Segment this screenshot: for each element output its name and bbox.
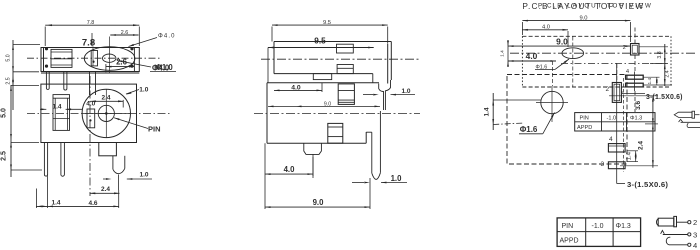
svg-text:3.6: 3.6 [635, 101, 642, 110]
svg-text:9.0: 9.0 [313, 198, 325, 207]
svg-text:APPD: APPD [560, 238, 579, 245]
svg-text:4.0: 4.0 [284, 165, 296, 174]
svg-text:2.5: 2.5 [6, 77, 12, 84]
svg-text:9.5: 9.5 [323, 20, 331, 26]
svg-text:4.0: 4.0 [291, 85, 301, 92]
svg-text:2.4: 2.4 [101, 186, 110, 193]
svg-text:2.6: 2.6 [116, 57, 128, 66]
svg-text:PIN: PIN [580, 116, 589, 122]
svg-text:3-(1.5X0.6): 3-(1.5X0.6) [627, 180, 668, 189]
svg-text:Φ4.0: Φ4.0 [158, 33, 176, 39]
svg-text:Φ1.0: Φ1.0 [156, 63, 174, 72]
svg-text:3.8: 3.8 [657, 51, 663, 58]
svg-text:4: 4 [609, 136, 613, 143]
svg-text:1.0: 1.0 [139, 87, 148, 94]
svg-text:1.0: 1.0 [401, 88, 410, 95]
svg-text:1.0: 1.0 [391, 174, 403, 183]
svg-text:PIN: PIN [148, 125, 161, 134]
svg-text:Φ1.3: Φ1.3 [616, 223, 631, 230]
svg-text:-1.0: -1.0 [592, 223, 604, 230]
svg-text:3: 3 [600, 161, 604, 168]
svg-text:2: 2 [605, 86, 609, 93]
svg-text:9.0: 9.0 [324, 102, 331, 108]
svg-text:9.0: 9.0 [579, 15, 587, 21]
svg-text:4.0: 4.0 [86, 100, 95, 107]
svg-text:Φ1.6: Φ1.6 [520, 125, 538, 134]
svg-text:4.0: 4.0 [542, 25, 550, 31]
svg-text:1.4: 1.4 [484, 107, 491, 116]
svg-text:2.4: 2.4 [101, 94, 110, 101]
svg-text:4: 4 [693, 241, 697, 250]
svg-text:1.4: 1.4 [52, 103, 61, 110]
svg-text:4.6: 4.6 [88, 200, 97, 207]
svg-text:3: 3 [693, 230, 697, 239]
svg-text:P.C.B LAYOUT TOP VIEW: P.C.B LAYOUT TOP VIEW [538, 2, 653, 9]
svg-text:7.8: 7.8 [82, 38, 95, 49]
svg-text:2: 2 [693, 218, 697, 227]
svg-text:1.4: 1.4 [51, 200, 60, 207]
svg-text:APPD: APPD [577, 125, 592, 131]
svg-text:2.5: 2.5 [1, 151, 8, 161]
svg-text:Φ1.3: Φ1.3 [630, 116, 642, 122]
svg-text:5.0: 5.0 [6, 54, 12, 61]
svg-text:2.4: 2.4 [638, 141, 645, 150]
svg-text:1.4: 1.4 [626, 151, 632, 160]
svg-text:1.0: 1.0 [139, 172, 148, 179]
svg-text:9.0: 9.0 [556, 37, 568, 47]
svg-text:4.0: 4.0 [526, 51, 538, 61]
svg-text:7.8: 7.8 [87, 20, 95, 26]
svg-text:2: 2 [623, 45, 626, 51]
svg-text:1.4: 1.4 [647, 78, 653, 85]
svg-text:5.0: 5.0 [1, 108, 8, 118]
svg-text:3-(1.5X0.6): 3-(1.5X0.6) [646, 94, 683, 101]
svg-text:2.6: 2.6 [121, 30, 129, 36]
svg-text:-1.0: -1.0 [607, 116, 617, 122]
svg-text:2.4: 2.4 [665, 70, 671, 77]
svg-text:1.4: 1.4 [500, 50, 506, 57]
svg-text:PIN: PIN [562, 223, 574, 230]
